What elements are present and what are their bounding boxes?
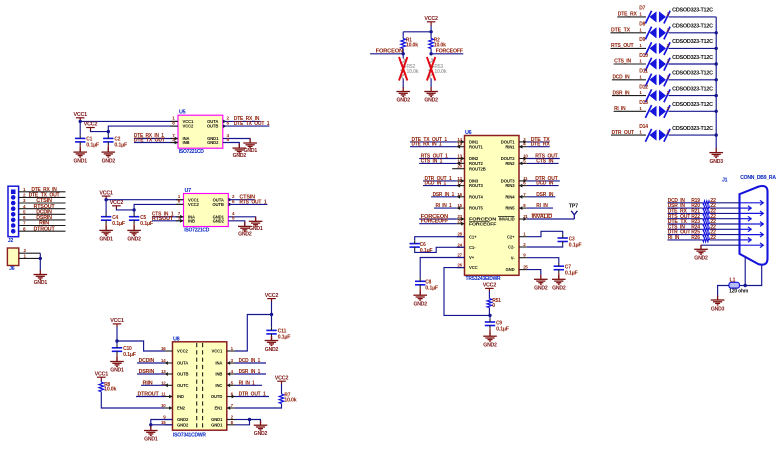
junction R51/C9/VCC node [488, 314, 491, 317]
svg-text:GND2: GND2 [213, 218, 225, 223]
wire DSR_IN to diode D12 [612, 95, 646, 97]
svg-text:VCC2: VCC2 [183, 124, 195, 129]
ground GND3 (L1) [711, 296, 725, 305]
isolator U8 ISO7341CDWR [173, 336, 227, 438]
junction bus at RTS_OUT [715, 47, 718, 50]
svg-text:C1-: C1- [469, 245, 476, 250]
wire VCC1 node to U8 VCC2 pin [117, 341, 165, 351]
svg-text:10.0k: 10.0k [104, 387, 116, 393]
pin 13 U8 OUTB [165, 373, 173, 375]
wire down from pin5 row [700, 245, 702, 247]
wire U6 VCC down to R51/C9 node [444, 268, 490, 316]
svg-text:26: 26 [457, 263, 462, 268]
svg-text:GND2: GND2 [534, 286, 548, 292]
wire C9 to GND2 [489, 329, 491, 337]
svg-text:FORCEOFF: FORCEOFF [469, 221, 497, 226]
svg-text:VCC2: VCC2 [265, 293, 279, 299]
pin 2 U8 GND1 [227, 419, 235, 421]
wire DTE_TX_OUT to U5 INB [134, 142, 178, 144]
isolator U5 ISO7221CD [178, 110, 223, 155]
svg-text:INB: INB [215, 372, 222, 377]
svg-text:10.0k: 10.0k [406, 43, 418, 49]
pin 3 J2 / net CTSIN [19, 202, 66, 204]
svg-text:CDSOD323-T12C: CDSOD323-T12C [672, 39, 713, 45]
svg-text:CDSOD323-T12C: CDSOD323-T12C [672, 24, 713, 30]
svg-text:INB: INB [183, 140, 190, 145]
wire VCC1 to R8 [100, 380, 102, 382]
wire C3 bottom to U6 C2- [527, 245, 563, 247]
wire C1 to GND1 [79, 145, 81, 152]
wire VCC2 junction down to R2 [430, 32, 432, 39]
pin 10 U6 DOUT2 [519, 158, 527, 160]
ground GND1 (below C10) [110, 357, 124, 366]
junction VCC2/C11 node [270, 313, 273, 316]
wire DTE_RX_IN_1 to U5 INA [134, 138, 178, 140]
svg-text:GND1: GND1 [144, 436, 158, 442]
svg-text:GND2: GND2 [207, 140, 219, 145]
svg-text:VCC2: VCC2 [483, 283, 497, 289]
ground GND1 (U5) [243, 139, 257, 148]
svg-text:13: 13 [161, 369, 166, 374]
svg-text:CDSOD323-T12C: CDSOD323-T12C [672, 86, 713, 92]
wire U8 GND2 pins to ground [151, 420, 173, 425]
wire VCC2 to junction [271, 301, 273, 314]
wire R8 to U8 EN2 [101, 392, 164, 408]
svg-text:0: 0 [492, 303, 495, 309]
pin arrow J1 row 8 [741, 238, 752, 243]
wire DTE_TX_OUT_1 stub [223, 125, 270, 127]
svg-text:CDSOD323-T12C: CDSOD323-T12C [672, 126, 713, 132]
svg-text:ISO7221CD: ISO7221CD [184, 227, 210, 233]
wire C2 to GND2 [107, 145, 109, 152]
svg-text:GND2: GND2 [424, 98, 438, 104]
svg-text:OUTB: OUTB [177, 372, 189, 377]
svg-text:GND2: GND2 [552, 286, 566, 292]
svg-text:EN1: EN1 [214, 406, 223, 411]
capacitor C8 0.1uF [415, 281, 425, 285]
wire DSR_IN to resistor R20 [668, 207, 703, 209]
wire C7 to GND2 [558, 273, 560, 279]
svg-text:RIN5: RIN5 [505, 206, 515, 211]
junction FORCEOFF node [429, 52, 432, 55]
ground GND2 (below C2) [102, 148, 116, 157]
wire U6 C1+ to C6 [415, 237, 465, 241]
junction bus at DTR_OUT [715, 133, 718, 136]
svg-text:ISO7341CDWR: ISO7341CDWR [173, 432, 206, 438]
svg-text:U5: U5 [179, 110, 186, 116]
svg-text:INC: INC [215, 383, 222, 388]
svg-text:EN2: EN2 [177, 406, 186, 411]
svg-text:C2-: C2- [508, 245, 515, 250]
wire R20 to J1 [710, 207, 740, 209]
pin 20 U6 ROUT2B [452, 168, 464, 170]
resistor R2 [429, 39, 434, 49]
wire J6 node to GND1 [39, 258, 41, 270]
svg-text:IND: IND [177, 394, 184, 399]
wire R26 to J1 [710, 239, 740, 241]
svg-text:RIN2: RIN2 [505, 161, 515, 166]
pin 6 J2 / net DSRIN [19, 219, 66, 221]
svg-text:R26: R26 [691, 235, 700, 241]
pin arrow J1 row 9 [741, 243, 764, 248]
wire TVS common bus [715, 17, 717, 149]
wire diode D11 to bus [669, 79, 717, 81]
wire C5 to GND2 [133, 223, 135, 230]
wire J1 shell left leg [744, 257, 746, 285]
pin 10 U8 EN2 [165, 407, 173, 409]
svg-text:RIN1: RIN1 [505, 144, 515, 149]
wire junction up to U5 pin8 VCC2 [108, 126, 178, 132]
wire VCC2 node to U8 VCC1 pin [235, 315, 272, 352]
ground GND3 (TVS bus) [709, 148, 723, 157]
svg-text:GND3: GND3 [710, 159, 724, 165]
ground GND2 (below C5) [127, 226, 141, 235]
wire diode D8 to bus [669, 32, 717, 34]
pin 26 U6 VCC [457, 267, 465, 269]
connector J2 pin contacts [11, 190, 16, 234]
svg-text:VCC2: VCC2 [275, 375, 289, 381]
wire RTSOUT to U7 INB [152, 220, 184, 222]
wire VCC2 to R51 [488, 291, 490, 299]
wire R19 to J1 [710, 202, 740, 204]
junction bus at CTS_IN [715, 62, 718, 65]
pin 11 U8 IND [165, 396, 173, 398]
capacitor C6 0.1uF [410, 244, 420, 248]
pin 14 U8 OUTA [165, 362, 173, 364]
pin 25 U6 GND [519, 269, 527, 271]
wire shell node to L1 [740, 285, 746, 287]
svg-text:28: 28 [457, 232, 462, 237]
junction bus at DSR_IN [715, 94, 718, 97]
wire VCC1 to junction [116, 327, 118, 341]
svg-text:27: 27 [457, 253, 462, 258]
svg-text:GND: GND [505, 267, 514, 272]
svg-text:OUTC: OUTC [177, 383, 189, 388]
wire DTE_RX to diode D7 [617, 16, 646, 18]
pin 7 J2 / net RIIN [19, 225, 66, 227]
ground GND2 (below C11) [265, 336, 279, 345]
wire C11 to GND2 [271, 337, 273, 340]
wire C6 bottom to U6 C1- [415, 247, 465, 252]
wire R53 to GND2 [430, 79, 432, 88]
wire diode D13 to bus [669, 110, 717, 112]
svg-text:RIN3: RIN3 [505, 183, 515, 188]
svg-text:VCC2: VCC2 [84, 122, 98, 128]
wire R51 to node [488, 308, 490, 316]
ground GND2 (U6 GND pin) [534, 275, 548, 284]
wire U5 GND1 to ground [223, 139, 250, 143]
pin 2 U6 C2- [519, 246, 527, 248]
svg-text:0.1µF: 0.1µF [112, 221, 125, 227]
svg-text:0.1µF: 0.1µF [425, 286, 438, 292]
svg-text:ROUT2B: ROUT2B [469, 166, 486, 171]
svg-text:OUTD: OUTD [211, 394, 223, 399]
svg-text:GND2: GND2 [238, 231, 252, 237]
ground GND2 (below C8) [413, 291, 427, 300]
pin 2 J2 / net DTE_TX_OUT [19, 196, 66, 198]
svg-text:14: 14 [161, 358, 166, 363]
svg-text:GND2: GND2 [177, 417, 189, 422]
svg-text:12: 12 [161, 380, 166, 385]
pin 27 U6 V+ [457, 257, 465, 259]
svg-text:VCC1: VCC1 [99, 190, 113, 196]
pin 5 J2 / net DCDIN [19, 213, 66, 215]
pin 14 U6 DIN1 [457, 141, 465, 143]
wire VCC1 to junction/C4 [105, 199, 107, 214]
svg-text:GND1: GND1 [74, 158, 88, 164]
wire R24 to J1 [710, 228, 740, 230]
wire CTS_IN_1 to U7 INA [152, 216, 184, 218]
svg-text:GND2: GND2 [127, 237, 141, 243]
wire DTE_RX_IN stub [223, 120, 261, 122]
svg-text:OUTB: OUTB [207, 124, 219, 129]
svg-text:DTROUT: DTROUT [34, 226, 56, 232]
svg-text:VCC1: VCC1 [95, 371, 109, 377]
pin 12 U8 OUTC [165, 384, 173, 386]
pin 5 U8 INC [227, 384, 235, 386]
pin arrow J1 row 6 [741, 227, 752, 232]
svg-text:C2+: C2+ [507, 234, 515, 239]
wire VCC1 to U7 pin1 [106, 199, 183, 201]
svg-text:ROUT4: ROUT4 [469, 194, 483, 199]
wire VCC2 to R7 [281, 384, 283, 394]
pin 3 U6 DOUT1 [519, 141, 527, 143]
svg-text:10.0k: 10.0k [284, 397, 296, 403]
svg-text:U6: U6 [465, 130, 472, 136]
svg-text:J2: J2 [8, 238, 14, 244]
junction bus at RI_IN [715, 110, 718, 113]
svg-text:OUTA: OUTA [177, 361, 188, 366]
junction U8 left ground node [149, 423, 152, 426]
wire RTS_OUT to resistor R22 [668, 218, 703, 220]
pin 21 U6 INVALID [519, 218, 527, 220]
pin 9 U8 GND2 [165, 419, 173, 421]
wire diode D10 to bus [669, 63, 717, 65]
svg-text:ROUT3: ROUT3 [469, 183, 483, 188]
pin 22 U6 FORCEOFF [457, 223, 465, 225]
svg-text:CDSOD323-T12C: CDSOD323-T12C [672, 71, 713, 77]
pin arrow J1 row 1 [741, 200, 764, 205]
svg-text:GND1: GND1 [99, 237, 113, 243]
wire diode D9 to bus [669, 47, 717, 49]
svg-text:GND2: GND2 [265, 347, 279, 353]
svg-text:GND1: GND1 [34, 280, 48, 286]
capacitor C7 0.1uF [554, 266, 564, 270]
wire FORCEON node down to R52 [402, 54, 404, 59]
pin 28 U6 C1+ [457, 236, 465, 238]
wire node down to C9 [489, 315, 491, 318]
svg-text:25: 25 [523, 265, 528, 270]
svg-text:VCC: VCC [469, 265, 478, 270]
junction VCC2/C5 node (U7) [132, 208, 135, 211]
wire U7 GND2 to ground [228, 221, 245, 226]
ground GND1 (J6) [34, 270, 48, 279]
svg-text:GND1: GND1 [110, 368, 124, 374]
svg-text:0.1µF: 0.1µF [123, 352, 136, 358]
svg-text:GND2: GND2 [102, 158, 116, 164]
pin 8 U6 RIN5 [519, 207, 527, 209]
svg-text:V+: V+ [469, 255, 475, 260]
ground GND1 (below C4) [99, 226, 113, 235]
pin 5 U6 RIN2 [519, 162, 527, 164]
wire R2 bottom to FORCEOFF node [430, 49, 432, 54]
pin 6 U8 OUTD [227, 396, 235, 398]
svg-text:GND1: GND1 [211, 422, 223, 427]
svg-text:C1+: C1+ [469, 234, 477, 239]
svg-text:GND2: GND2 [233, 153, 247, 159]
resistor R1 [401, 39, 406, 49]
ground GND1 (below C1) [73, 148, 87, 157]
pin 15 U8 GND2 [165, 424, 173, 426]
ground GND2 (below R53) [424, 87, 438, 96]
wire FORCEOFF stub [431, 53, 463, 55]
wire node to GND2 [250, 420, 261, 424]
wire CTS_IN to resistor R24 [668, 228, 703, 230]
wire node to GND1 [150, 425, 152, 429]
resistor R51 0 ohm [487, 299, 492, 308]
junction VCC2/C2 node [107, 130, 110, 133]
svg-text:VCC1: VCC1 [212, 349, 224, 354]
svg-text:CDSOD323-T12C: CDSOD323-T12C [672, 8, 713, 14]
pin 11 U6 DOUT3 [519, 180, 527, 182]
junction bus at DCD_IN [715, 78, 718, 81]
wire DTR_OUT to diode D14 [611, 134, 646, 136]
wire R23 to J1 [710, 223, 740, 225]
svg-text:GND2: GND2 [254, 431, 268, 437]
wire R25 to J1 [710, 234, 740, 236]
pin 16 U6 ROUT4 [457, 196, 465, 198]
svg-text:ROUT2: ROUT2 [469, 161, 483, 166]
capacitor C5 0.1uF [129, 217, 139, 221]
capacitor C4 0.1uF [101, 217, 111, 221]
wire VCC2 flag to C5 junction [116, 209, 134, 210]
svg-text:GND2: GND2 [414, 301, 428, 307]
svg-text:10.0k: 10.0k [434, 69, 446, 75]
resistor R8 10.0k [99, 382, 104, 392]
wire R7 to U8 EN1 [235, 404, 282, 408]
pin 13 U6 DIN2 [457, 158, 465, 160]
pin 9 U6 V- [519, 257, 527, 259]
junction VCC1/C10 node [115, 339, 118, 342]
ground GND2 (below C9) [483, 332, 497, 341]
wire CTS_IN to diode D10 [614, 63, 646, 65]
svg-text:0.1µF: 0.1µF [114, 143, 127, 149]
junction shell node [744, 284, 747, 287]
wire U7 GND1 to ground [228, 217, 255, 221]
wire J1 shell right leg [745, 266, 762, 286]
wire R52 to GND2 [402, 79, 404, 88]
wire U5 GND2 to ground [223, 143, 240, 148]
wire DTE_TX to resistor R23 [668, 223, 703, 225]
pin 18 U6 ROUT2 [457, 162, 465, 164]
wire C4 to GND1 [105, 223, 107, 230]
ground GND1 (U8 left) [144, 426, 158, 435]
wire U6 V+ down to C8 [420, 258, 464, 279]
wire U8 GND1 pins to ground [235, 419, 250, 421]
junction VCC1 node [79, 120, 82, 123]
svg-text:GND2: GND2 [694, 256, 708, 262]
wire C10 to GND1 [116, 355, 118, 362]
svg-text:J1: J1 [722, 178, 728, 184]
isolator U7 ISO7221CD [184, 188, 229, 233]
wire diode D14 to bus [669, 134, 717, 136]
transceiver U6 TRS3243EIDWR [465, 130, 520, 282]
junction J6 ground node [39, 257, 42, 260]
svg-text:ISO7221CD: ISO7221CD [179, 149, 205, 155]
svg-text:0.1µF: 0.1µF [569, 242, 582, 248]
svg-text:VCC2: VCC2 [110, 200, 124, 206]
svg-text:VCC1: VCC1 [110, 318, 124, 324]
ground GND2 (below C7) [552, 275, 566, 284]
capacitor C2 0.1uF [103, 138, 113, 142]
pin arrow J1 row 4 [741, 216, 752, 221]
svg-text:J6: J6 [9, 266, 15, 272]
svg-text:15: 15 [161, 420, 166, 425]
svg-text:CONN_DB9_RA: CONN_DB9_RA [740, 175, 776, 181]
pin 1 U8 VCC1 [227, 350, 235, 352]
wire DCD_IN to diode D11 [612, 79, 646, 81]
svg-text:16: 16 [161, 346, 166, 351]
wire R1-R2 top tie [403, 31, 431, 33]
ground GND2 (J1 pin5) [694, 245, 708, 254]
svg-text:OUTB: OUTB [212, 202, 224, 207]
svg-text:VCC2: VCC2 [177, 349, 189, 354]
resistor R7 10.0k [279, 394, 284, 404]
pin arrow J1 row 5 [741, 222, 764, 227]
svg-text:ROUT5: ROUT5 [469, 206, 483, 211]
wire VCC1 to junction/C1 [79, 121, 81, 136]
pin 1 J2 / net DTE_RX_IN [19, 191, 66, 193]
wire diode D7 to bus [669, 16, 717, 18]
connector J6 [7, 248, 18, 266]
ground GND2 (U5) [233, 144, 247, 153]
wire R1 bottom to FORCEON node [402, 49, 404, 54]
wire DCD_IN to resistor R19 [668, 202, 703, 204]
connector J2 [8, 186, 19, 237]
svg-text:U8: U8 [173, 336, 180, 342]
wire U6 V- to C7 [527, 258, 559, 263]
capacitor C11 0.1uF [266, 330, 276, 334]
pin 23 U6 FORCEON [457, 218, 465, 220]
wire top tie down to R1 [402, 32, 404, 39]
svg-text:INB: INB [188, 218, 195, 223]
svg-text:10.0k: 10.0k [407, 69, 419, 75]
svg-text:20: 20 [457, 164, 462, 169]
capacitor C3 0.1uF [558, 238, 568, 242]
wire VCC2 stem to junction [430, 26, 432, 32]
svg-text:0.1µF: 0.1µF [565, 271, 578, 277]
pin arrow J1 row 3 [741, 211, 764, 216]
ground GND2 (below R52) [396, 87, 410, 96]
wire DTR_OUT to resistor R25 [668, 234, 703, 236]
pin 15 U6 ROUT5 [457, 207, 465, 209]
wire node down to C11 [271, 315, 273, 328]
wire RTS_OUT_1 stub [228, 203, 267, 205]
wire R21 to J1 [710, 212, 740, 214]
wire J1 pin5 ground row [701, 244, 740, 246]
svg-text:CDSOD323-T12C: CDSOD323-T12C [672, 102, 713, 108]
wire U6 GND pin to ground [527, 270, 541, 275]
svg-text:CDSOD323-T12C: CDSOD323-T12C [672, 55, 713, 61]
svg-text:GND2: GND2 [177, 422, 189, 427]
wire J6 pin2 down to pin1 node [39, 253, 41, 258]
wire junction up to U7 pin8 [134, 204, 183, 210]
pin 12 U6 DIN3 [457, 180, 465, 182]
svg-text:0.1µF: 0.1µF [420, 248, 433, 254]
svg-text:24: 24 [457, 242, 462, 247]
pin 17 U6 ROUT3 [457, 185, 465, 187]
svg-text:GND2: GND2 [483, 342, 497, 348]
